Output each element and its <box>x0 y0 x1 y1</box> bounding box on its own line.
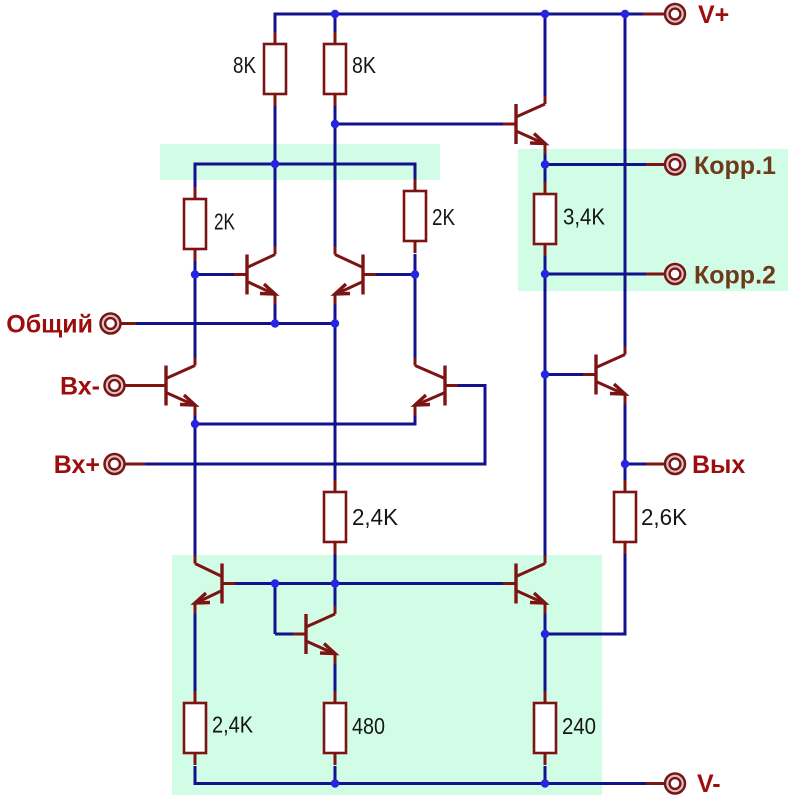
svg-text:Корр.1: Корр.1 <box>694 152 776 180</box>
svg-text:2K: 2K <box>432 204 455 230</box>
terminal Obshchiy (common) <box>101 314 121 334</box>
svg-text:2,6K: 2,6K <box>641 504 687 530</box>
wire Q2 base node to base pin <box>195 273 234 276</box>
resistor R1 8K (left) <box>264 32 286 106</box>
wire Q5 base node down to Q9 collector <box>544 375 547 564</box>
pin Vx- terminal to Q1 base <box>124 384 153 387</box>
svg-text:2,4K: 2,4K <box>352 504 398 530</box>
wire band to R3 top <box>194 163 197 188</box>
junction bottom rail / R9 <box>331 779 339 787</box>
svg-text:2K: 2K <box>214 209 235 235</box>
wire Q4 collector riser <box>414 275 417 366</box>
junction Kopp.1 node <box>541 160 549 168</box>
wire common (Obshchiy) line <box>136 322 335 325</box>
pin Kopp.1 terminal <box>646 163 665 166</box>
terminal Kopp.2 <box>665 264 685 284</box>
wire Kopp.2 line <box>545 273 646 276</box>
wire Q7 base line to Q9 <box>235 582 503 585</box>
transistor Q9 (right current source) <box>503 556 545 614</box>
junction mirror base right <box>331 579 339 587</box>
resistor R2 8K (right) <box>324 32 346 106</box>
wire Q6 emitter to Kopp.1 node <box>544 144 547 165</box>
wire Q4 emitter drop <box>414 406 417 426</box>
svg-text:8K: 8K <box>352 52 376 78</box>
pin Kopp.2 terminal <box>646 273 665 276</box>
wire Q4 base drop <box>484 384 487 464</box>
transistor Q2 (left cascode) <box>234 247 275 305</box>
wire R6 bottom to mirror node <box>334 554 337 584</box>
wire band node to Q2 collector <box>274 164 277 255</box>
terminal Vx- (inverting input) <box>105 376 125 396</box>
junction output node <box>621 460 629 468</box>
junction top rail / R2 <box>331 10 339 18</box>
wire Q3 base node to base pin <box>376 273 415 276</box>
svg-text:Корр.2: Корр.2 <box>694 262 776 290</box>
highlight region: first stage collector band <box>160 144 440 180</box>
wire Q8 base tie across <box>275 633 293 636</box>
wire R1 bottom to band node <box>274 106 277 164</box>
wire Q5 base stub <box>545 373 583 376</box>
svg-text:8K: 8K <box>233 52 256 78</box>
transistor Q8 (diode-connected reference) <box>293 606 335 664</box>
junction diff pair tail <box>191 420 199 428</box>
junction Q5 base node <box>541 370 549 378</box>
svg-text:Вх+: Вх+ <box>54 451 100 479</box>
resistor R6 2,4K (middle) <box>324 480 346 554</box>
wire R10 bottom to rail <box>544 766 547 784</box>
wire R7 bottom to Q9 emitter node <box>545 633 627 636</box>
pin Obshchiy terminal <box>120 322 136 325</box>
pin V- terminal <box>646 782 665 785</box>
wire Q3 collector riser <box>334 124 337 255</box>
junction common / Q3 emitter <box>331 319 339 327</box>
junction Kopp.2 node <box>541 270 549 278</box>
svg-text:Вх-: Вх- <box>60 373 100 401</box>
wire tail horizontal <box>195 423 415 426</box>
wire R7 bottom drop <box>624 554 627 634</box>
resistor R8 2,4K (bottom left) <box>184 691 206 765</box>
wire R2 bottom to Q6 base node <box>334 106 337 124</box>
wire rail to Q6 collector <box>544 14 547 104</box>
wire band node horizontal <box>195 163 415 166</box>
transistor Q4 (Vx+ input, mirrored) <box>415 358 458 416</box>
wire Q9 emitter to node <box>544 604 547 635</box>
wire Q9 emitter node down to R10 <box>544 634 547 691</box>
transistor Q7 (mirror output, mirrored) <box>195 556 235 614</box>
resistor R5 3,4K <box>534 182 556 256</box>
transistor Q5 (output emitter follower) <box>583 347 625 405</box>
wire Q1 emitter to tail node <box>194 406 197 425</box>
wire mirror node to Q8 collector <box>334 584 337 615</box>
wire Q5 emitter to output node <box>624 395 627 465</box>
junction top rail / V+ column <box>621 10 629 18</box>
wire Kopp.2 node down to Q5 base node <box>544 274 547 375</box>
wire rail down to Q5 collector <box>624 14 627 353</box>
junction Q2 base node <box>191 270 199 278</box>
terminal V+ <box>665 4 685 24</box>
terminal Kopp.1 <box>665 155 685 175</box>
resistor R10 240 <box>534 691 556 765</box>
junction R2 bottom / Q6 base <box>331 120 339 128</box>
svg-text:Вых: Вых <box>692 451 745 479</box>
wire Q1 collector riser <box>194 275 197 366</box>
wire Q8 base tie riser <box>274 584 277 635</box>
transistor Q1 (Vx- input) <box>153 358 195 416</box>
resistor R4 2K (right) <box>404 179 426 253</box>
resistor R7 2,6K <box>614 480 636 554</box>
terminal V- <box>665 774 685 794</box>
wire Kopp.1 line <box>545 163 646 166</box>
highlight region: current mirror block <box>172 555 602 795</box>
transistor Q6 (correction driver) <box>503 96 545 154</box>
resistor R9 480 <box>324 691 346 765</box>
junction Q9 emitter node <box>541 630 549 638</box>
wire V- bottom rail <box>195 782 646 785</box>
highlight region: frequency correction block <box>518 149 788 291</box>
pin Vyx terminal <box>646 463 665 466</box>
svg-text:V+: V+ <box>698 1 729 29</box>
terminal Vyx (output) <box>665 454 685 474</box>
junction Q3 base node <box>411 270 419 278</box>
wire R5 bottom to Kopp.2 node <box>544 256 547 274</box>
wire band to R4 top <box>414 163 417 180</box>
wire Q2 emitter drop <box>274 295 277 324</box>
svg-text:2,4K: 2,4K <box>212 712 253 738</box>
wire Kopp.1 node to R5 top <box>544 165 547 183</box>
junction top rail / Q6 collector <box>541 10 549 18</box>
wire Q6 base line <box>335 123 504 126</box>
svg-text:480: 480 <box>352 713 385 739</box>
wire Vx+ line <box>145 463 487 466</box>
wire R9 bottom to rail <box>334 766 337 784</box>
pin Vx+ terminal <box>124 463 145 466</box>
junction mirror base left <box>271 579 279 587</box>
wire Q4 base run right <box>458 384 485 387</box>
svg-text:240: 240 <box>562 713 596 739</box>
wire R3 bottom to Q2 base node <box>194 261 197 275</box>
resistor R3 2K (left) <box>184 187 206 261</box>
svg-text:Общий: Общий <box>6 311 93 339</box>
pin V+ terminal <box>643 13 665 16</box>
junction bottom rail / R10 <box>541 779 549 787</box>
junction band / R1 bottom <box>271 160 279 168</box>
transistor Q3 (right cascode, mirrored) <box>335 247 376 305</box>
wire top rail corner down to R1 <box>274 13 277 33</box>
svg-text:V-: V- <box>697 770 721 798</box>
wire R4 bottom to Q3 base node <box>414 254 417 275</box>
wire output node to R7 top <box>624 464 627 480</box>
wire tail node down to Q7 collector <box>194 424 197 564</box>
wire Q3 emitter drop <box>334 295 337 324</box>
wire Q7 emitter to R8 <box>194 604 197 692</box>
wire R2 top to rail <box>334 14 337 32</box>
wire V+ top rail <box>275 13 643 16</box>
terminal Vx+ (non-inverting input) <box>105 454 125 474</box>
junction common / Q2 emitter <box>271 319 279 327</box>
wire R8 bottom corner <box>194 766 197 785</box>
wire output node to terminal pin <box>625 463 648 466</box>
wire mid column down to R6 <box>334 324 337 481</box>
svg-text:3,4K: 3,4K <box>563 204 605 230</box>
wire Q8 emitter to R9 <box>334 654 337 691</box>
